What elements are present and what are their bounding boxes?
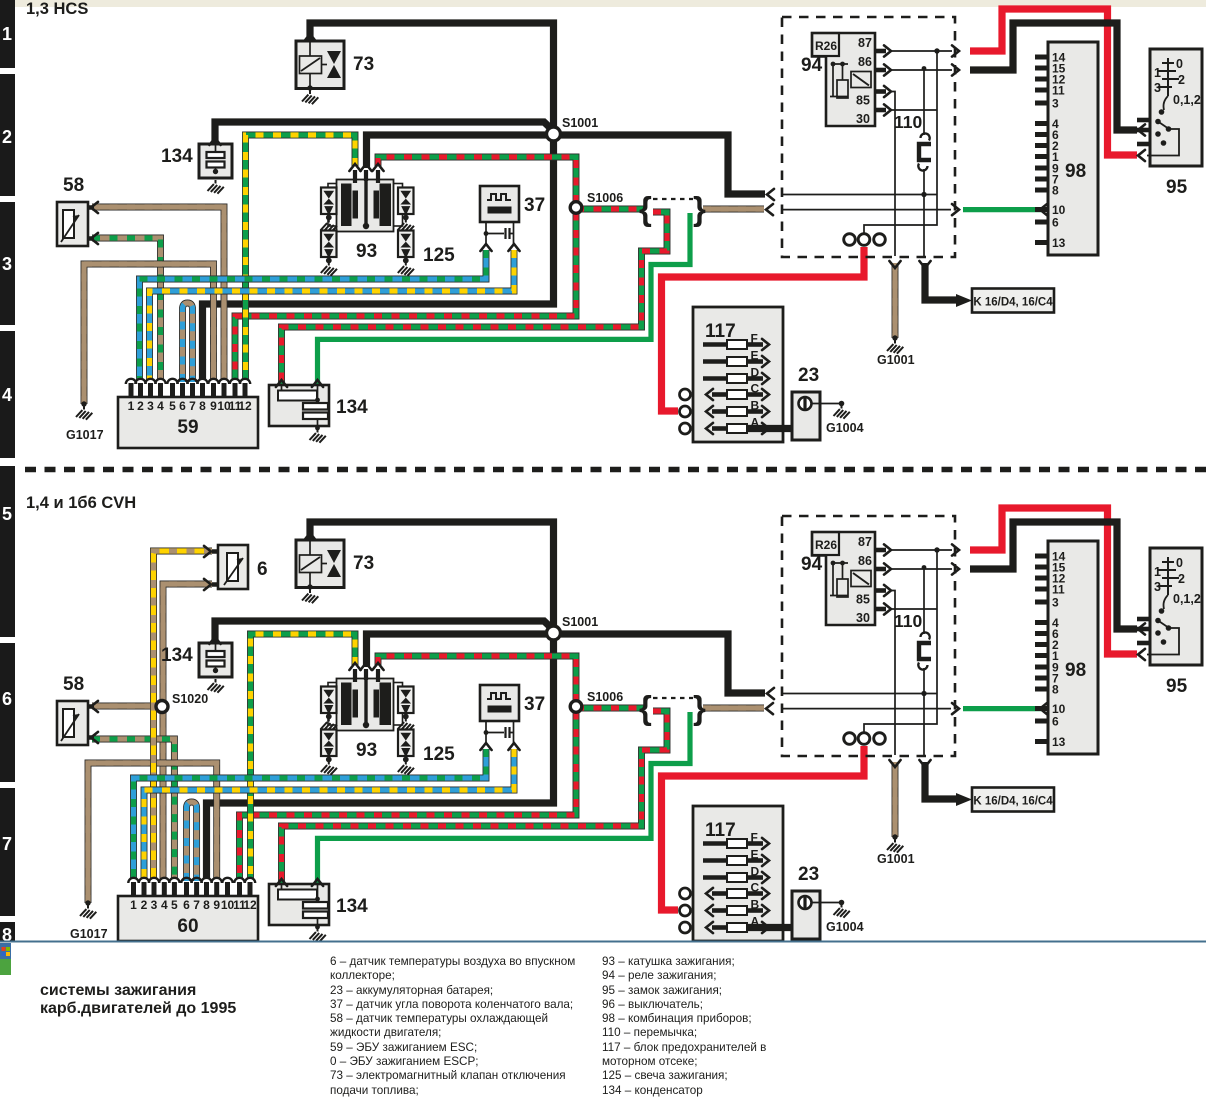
svg-text:C: C bbox=[751, 881, 760, 895]
ground G1001 bbox=[892, 834, 897, 839]
svg-text:1: 1 bbox=[130, 898, 137, 912]
svg-text:K 16/D4, 16/C4: K 16/D4, 16/C4 bbox=[973, 297, 1053, 309]
jumper 110 symbol bbox=[921, 133, 930, 140]
connector pass-through braces bbox=[639, 689, 706, 726]
arrow down out of dashed box (black) bbox=[919, 261, 930, 268]
svg-text:13: 13 bbox=[1052, 735, 1066, 749]
wire green: to instrument cluster pin10 bbox=[963, 706, 1041, 711]
svg-text:125: 125 bbox=[423, 744, 455, 765]
spark plug 125 upper-left bbox=[321, 188, 337, 215]
ground under capacitor 134b bbox=[315, 925, 320, 930]
ground G1004 bbox=[839, 900, 845, 906]
svg-text:G1001: G1001 bbox=[877, 852, 915, 866]
svg-text:1: 1 bbox=[128, 399, 135, 413]
svg-text:K 16/D4, 16/C4: K 16/D4, 16/C4 bbox=[973, 796, 1053, 808]
wire thin black inside relay dashed box bbox=[782, 194, 937, 196]
svg-text:7: 7 bbox=[193, 898, 200, 912]
wire thin: relay 85 to box bottom bbox=[891, 591, 895, 756]
jumper 110 symbol bbox=[921, 632, 930, 639]
svg-text:G1004: G1004 bbox=[826, 920, 864, 934]
wire black: relay 86 to ignition switch 95 bbox=[970, 23, 1137, 130]
svg-text:95: 95 bbox=[1166, 177, 1188, 198]
wire black: valve 73 feed / S1001 vertical / to ECU pin8 bbox=[203, 23, 554, 380]
relay compartment dashed box bbox=[782, 17, 955, 257]
svg-text:85: 85 bbox=[856, 593, 870, 607]
svg-text:110: 110 bbox=[894, 611, 922, 631]
legend column 2 bbox=[602, 955, 766, 1098]
svg-text:{: { bbox=[639, 190, 652, 227]
svg-text:7: 7 bbox=[2, 834, 12, 854]
arrow into relay box (black) bbox=[767, 688, 774, 699]
wire thin black inside box (brown row) bbox=[782, 209, 951, 211]
svg-text:S1006: S1006 bbox=[587, 191, 623, 205]
wire thin: relay 86 row bbox=[891, 69, 952, 71]
svg-text:D: D bbox=[751, 865, 760, 879]
coolant temperature sensor 58 bbox=[57, 202, 88, 246]
svg-text:93: 93 bbox=[356, 740, 377, 761]
fuse row A bbox=[712, 925, 727, 930]
svg-text:R26: R26 bbox=[815, 39, 837, 53]
wire black: coil rail through S1001 to relay box bbox=[367, 634, 766, 693]
svg-text:37: 37 bbox=[524, 195, 545, 216]
wire thin: battery feed vertical to rings bbox=[864, 550, 937, 732]
battery 23 bbox=[792, 392, 820, 440]
svg-text:}: } bbox=[693, 689, 706, 726]
svg-text:30: 30 bbox=[856, 112, 870, 126]
wire red: relay 87 to ignition switch 95 bbox=[970, 508, 1137, 654]
instrument cluster 98 bbox=[1048, 541, 1098, 754]
wire brown: sensor 58 top pin to ECU pin10 bbox=[92, 207, 224, 380]
svg-text:4: 4 bbox=[2, 385, 12, 405]
wire brown: ground G1017 to ECU pin9 bbox=[88, 763, 217, 903]
instrument cluster 98 bbox=[1048, 42, 1098, 255]
spark plug 125 upper-right bbox=[398, 687, 414, 714]
svg-text:37: 37 bbox=[524, 694, 545, 715]
ignition coil 93 bbox=[328, 683, 338, 726]
node S1006 bbox=[570, 701, 582, 713]
svg-text:E: E bbox=[751, 848, 759, 862]
wire fuse A to battery bbox=[747, 425, 806, 432]
wire thin black inside box (brown row) bbox=[782, 708, 951, 710]
arrow out of relay box to green wire bbox=[952, 703, 959, 714]
wire brown: brace to relay box bbox=[703, 705, 764, 712]
svg-text:86: 86 bbox=[858, 55, 872, 69]
wire thin: relay 86 row bbox=[891, 568, 952, 570]
svg-text:9: 9 bbox=[213, 898, 220, 912]
arrow down out of dashed box (brown) bbox=[889, 261, 900, 268]
legend title bbox=[40, 982, 236, 1018]
legend column 1 bbox=[330, 955, 575, 1098]
arrow into relay box (black) bbox=[767, 189, 774, 200]
wire red: connector rings to fuse box 117 bbox=[662, 746, 865, 910]
dotted section separator bbox=[25, 467, 1206, 473]
svg-text:6: 6 bbox=[2, 689, 12, 709]
svg-text:6: 6 bbox=[1052, 715, 1059, 729]
wire green: to instrument cluster pin10 bbox=[963, 207, 1041, 212]
svg-text:125: 125 bbox=[423, 245, 455, 266]
svg-text:5: 5 bbox=[169, 399, 176, 413]
capacitor 134a bbox=[199, 643, 232, 677]
ground under capacitor 134b bbox=[315, 426, 320, 431]
svg-text:6: 6 bbox=[1052, 216, 1059, 230]
svg-text:F: F bbox=[751, 332, 758, 346]
svg-text:87: 87 bbox=[858, 535, 872, 549]
node S1001 bbox=[547, 626, 561, 640]
svg-text:2: 2 bbox=[1178, 572, 1185, 586]
arrow at cluster pin10 bbox=[1040, 703, 1047, 714]
K16 arrow head bbox=[956, 294, 972, 307]
svg-text:85: 85 bbox=[856, 94, 870, 108]
wire black: valve 73 feed / S1001 vertical / to ECU pin8 bbox=[207, 522, 554, 879]
fuse row D bbox=[703, 875, 727, 880]
svg-text:6: 6 bbox=[179, 399, 186, 413]
svg-text:1,3 HCS: 1,3 HCS bbox=[26, 0, 88, 18]
wire green solid: brace drop to capacitor 134b right pin bbox=[318, 213, 691, 388]
ECU connector comb bbox=[131, 882, 253, 896]
solenoid valve 73 bbox=[296, 540, 344, 588]
svg-text:0: 0 bbox=[1176, 556, 1183, 570]
svg-text:C: C bbox=[751, 382, 760, 396]
svg-text:4: 4 bbox=[161, 898, 168, 912]
connector box K 16/D4, 16/C4 bbox=[972, 788, 1054, 812]
fuse row F bbox=[703, 841, 727, 846]
wire thin battery to G1004 bbox=[812, 902, 842, 904]
wire brown: ground G1017 to ECU pin9 bbox=[84, 264, 214, 404]
svg-text:12: 12 bbox=[238, 399, 252, 413]
svg-text:6: 6 bbox=[183, 898, 190, 912]
connector pass-through braces bbox=[639, 190, 706, 227]
svg-text:R26: R26 bbox=[815, 538, 837, 552]
svg-text:134: 134 bbox=[161, 146, 193, 167]
svg-text:1: 1 bbox=[1154, 66, 1161, 80]
svg-text:23: 23 bbox=[798, 365, 819, 386]
arrow into 95 (black) bbox=[1138, 623, 1145, 634]
svg-text:117: 117 bbox=[705, 820, 736, 841]
wire thin battery to G1004 bbox=[812, 403, 842, 405]
ground G1004 bbox=[839, 401, 845, 407]
wire black to K16 connector bbox=[925, 762, 956, 799]
svg-text:73: 73 bbox=[353, 54, 374, 75]
spark plug 125 lower-right bbox=[398, 231, 414, 258]
svg-text:30: 30 bbox=[856, 611, 870, 625]
ECU box 59 bbox=[118, 397, 258, 448]
fuse row E bbox=[703, 359, 727, 364]
arrow down out of dashed box (brown) bbox=[889, 760, 900, 767]
capacitor 134b near ECU bbox=[269, 385, 329, 426]
spark plug 125 upper-right bbox=[398, 188, 414, 215]
windows logo icon bbox=[0, 943, 11, 975]
svg-text:3: 3 bbox=[1052, 97, 1059, 111]
svg-text:8: 8 bbox=[1052, 184, 1059, 198]
connector box K 16/D4, 16/C4 bbox=[972, 289, 1054, 313]
ignition switch 95 bbox=[1150, 548, 1202, 665]
wire green/red: brace drop to capacitor 134b bbox=[282, 212, 668, 388]
wire blue/yellow: sensor 37 right to ECU bbox=[150, 250, 515, 380]
wire thin: relay 87 row bbox=[891, 50, 952, 52]
svg-text:G1017: G1017 bbox=[66, 428, 104, 442]
ignition relay 94 bbox=[812, 33, 875, 126]
wire black: capacitor 134a to S1001 bbox=[215, 621, 554, 645]
arrow into relay box (brown row) bbox=[766, 204, 773, 215]
svg-text:F: F bbox=[751, 831, 758, 845]
svg-text:G1001: G1001 bbox=[877, 353, 915, 367]
svg-text:2: 2 bbox=[2, 127, 12, 147]
battery 23 bbox=[792, 891, 820, 939]
fuse row B bbox=[712, 409, 727, 414]
crankshaft sensor 37 bbox=[480, 186, 519, 222]
svg-text:0,1,2: 0,1,2 bbox=[1173, 592, 1201, 606]
arrow into 95 (red) bbox=[1138, 649, 1145, 660]
fuse row D bbox=[703, 376, 727, 381]
arrow out of relay box to green wire bbox=[952, 204, 959, 215]
wire brown/blue loop between ECU pins 6 and 7 bbox=[187, 802, 197, 881]
svg-text:59: 59 bbox=[177, 417, 198, 438]
fuse box 117 bbox=[693, 806, 783, 941]
wire thin: relay 30 row bbox=[891, 608, 937, 610]
svg-text:134: 134 bbox=[336, 896, 368, 917]
svg-text:G1004: G1004 bbox=[826, 421, 864, 435]
wire red: connector rings to fuse box 117 bbox=[662, 247, 865, 411]
svg-text:6: 6 bbox=[257, 559, 268, 580]
arrow down out of dashed box (black) bbox=[919, 760, 930, 767]
svg-text:8: 8 bbox=[203, 898, 210, 912]
wire green/red: coil pin3 via S1006 to ECU pin11 bbox=[235, 157, 576, 380]
node S1006 bbox=[570, 202, 582, 214]
svg-text:60: 60 bbox=[177, 916, 198, 937]
svg-text:3: 3 bbox=[1154, 81, 1161, 95]
wire green/yellow: coil pin1 to ECU pin12 bbox=[246, 135, 356, 380]
wire black: capacitor 134a to S1001 bbox=[215, 122, 554, 146]
fuse row E bbox=[703, 858, 727, 863]
svg-text:8: 8 bbox=[199, 399, 206, 413]
svg-text:}: } bbox=[693, 190, 706, 227]
svg-text:E: E bbox=[751, 349, 759, 363]
svg-text:D: D bbox=[751, 366, 760, 380]
wire thin black inside relay dashed box bbox=[782, 693, 937, 695]
solenoid valve 73 bbox=[296, 41, 344, 89]
relay compartment dashed box bbox=[782, 516, 955, 756]
wire red: relay 87 to ignition switch 95 bbox=[970, 9, 1137, 155]
spark plug 125 lower-left bbox=[321, 231, 337, 258]
arrow into relay box (brown row) bbox=[766, 703, 773, 714]
svg-text:87: 87 bbox=[858, 36, 872, 50]
svg-text:7: 7 bbox=[189, 399, 196, 413]
svg-text:11: 11 bbox=[1052, 583, 1065, 597]
svg-text:S1001: S1001 bbox=[562, 615, 598, 629]
wire brown: relay 85 to ground G1001 bbox=[892, 762, 899, 837]
wire thin: battery feed vertical to rings bbox=[864, 51, 937, 233]
svg-text:134: 134 bbox=[161, 645, 193, 666]
svg-text:4: 4 bbox=[157, 399, 164, 413]
wire thin: relay 85 to box bottom bbox=[891, 92, 895, 257]
wire brown: sensor 58 top pin to node S1020 bbox=[92, 703, 162, 710]
wire thin: jumper 110 vertical bbox=[923, 569, 925, 755]
capacitor 134a bbox=[199, 144, 232, 178]
svg-text:117: 117 bbox=[705, 321, 736, 342]
ignition switch 95 bbox=[1150, 49, 1202, 166]
wire green/red: S1006 branch to connector brace bbox=[576, 206, 644, 213]
svg-text:3: 3 bbox=[1052, 596, 1059, 610]
svg-text:5: 5 bbox=[2, 504, 12, 524]
svg-text:1: 1 bbox=[1154, 565, 1161, 579]
ground G1017 bbox=[81, 401, 86, 406]
coolant temperature sensor 58 bbox=[57, 701, 88, 745]
intake air temperature sensor 6 bbox=[218, 545, 248, 589]
svg-text:8: 8 bbox=[1052, 683, 1059, 697]
wire black: relay 86 to ignition switch 95 bbox=[970, 522, 1137, 629]
ground G1017 bbox=[85, 900, 90, 905]
svg-text:98: 98 bbox=[1065, 660, 1086, 681]
svg-text:3: 3 bbox=[1154, 580, 1161, 594]
svg-text:2: 2 bbox=[1178, 73, 1185, 87]
svg-text:58: 58 bbox=[63, 175, 84, 196]
ground under valve 73 bbox=[302, 590, 318, 604]
wire brown/blue loop between ECU pins 6 and 7 bbox=[183, 303, 193, 382]
svg-text:S1006: S1006 bbox=[587, 690, 623, 704]
fuse row B bbox=[712, 908, 727, 913]
spark plug 125 lower-right bbox=[398, 730, 414, 757]
ECU box 60 bbox=[118, 896, 258, 941]
ECU connector comb bbox=[129, 383, 248, 397]
wire brown: sensor 6 bottom pin to S1020 to ECU pin4 bbox=[163, 584, 212, 879]
wire brown/green: sensor 58 bottom pin to ECU pin5 bbox=[92, 739, 174, 879]
svg-text:3: 3 bbox=[2, 254, 12, 274]
svg-text:11: 11 bbox=[1052, 84, 1065, 98]
svg-text:94: 94 bbox=[801, 554, 823, 575]
svg-text:3: 3 bbox=[147, 399, 154, 413]
wire blue/green: sensor 37 left to ECU bbox=[134, 749, 487, 879]
wire green solid: brace drop to capacitor 134b right pin bbox=[318, 712, 691, 887]
wire green/red: brace drop to capacitor 134b bbox=[282, 711, 668, 887]
spark plug 125 lower-left bbox=[321, 730, 337, 757]
svg-text:98: 98 bbox=[1065, 161, 1086, 182]
wire black to K16 connector bbox=[925, 263, 956, 300]
wire green/yellow: coil pin1 to ECU pin12 bbox=[251, 634, 356, 879]
svg-text:2: 2 bbox=[137, 399, 144, 413]
fuse row A bbox=[712, 426, 727, 431]
ignition coil 93 bbox=[328, 184, 338, 227]
fuse row C bbox=[712, 891, 727, 896]
svg-text:94: 94 bbox=[801, 55, 823, 76]
wire green/red: coil pin3 via S1006 to ECU pin11 bbox=[240, 656, 577, 879]
svg-text:2: 2 bbox=[141, 898, 148, 912]
fuse box 117 bbox=[693, 307, 783, 442]
svg-text:13: 13 bbox=[1052, 236, 1066, 250]
fuse row F bbox=[703, 342, 727, 347]
svg-text:23: 23 bbox=[798, 864, 819, 885]
svg-text:0: 0 bbox=[1176, 57, 1183, 71]
fuse row C bbox=[712, 392, 727, 397]
svg-text:0,1,2: 0,1,2 bbox=[1173, 93, 1201, 107]
left sidebar bbox=[0, 0, 15, 945]
svg-text:1,4 и 1б6 CVH: 1,4 и 1б6 CVH bbox=[26, 494, 136, 512]
wire brown: brace to relay box bbox=[703, 206, 764, 213]
wire black: coil rail through S1001 to relay box bbox=[367, 135, 766, 194]
connector rings (96) bbox=[844, 234, 856, 246]
svg-text:1: 1 bbox=[2, 24, 12, 44]
svg-text:S1001: S1001 bbox=[562, 116, 598, 130]
wire thin: relay 87 row bbox=[891, 549, 952, 551]
wire blue/green: sensor 37 left to ECU bbox=[140, 250, 487, 380]
svg-text:3: 3 bbox=[151, 898, 158, 912]
K16 arrow head bbox=[956, 793, 972, 806]
wire thin: relay 30 row bbox=[891, 109, 937, 111]
wire brown/green: sensor 58 bottom pin to ECU pin4 bbox=[92, 238, 161, 380]
wire thin: jumper 110 vertical bbox=[923, 70, 925, 256]
ground under valve 73 bbox=[302, 91, 318, 105]
crankshaft sensor 37 bbox=[480, 685, 519, 721]
blue separator line above legend bbox=[0, 941, 1206, 943]
arrow into 95 (black) bbox=[1138, 124, 1145, 135]
ground under capacitor 134a bbox=[208, 679, 224, 693]
cream top strip bbox=[0, 0, 1206, 7]
arrow into 95 (red) bbox=[1138, 150, 1145, 161]
svg-text:5: 5 bbox=[171, 898, 178, 912]
svg-text:S1020: S1020 bbox=[172, 692, 208, 706]
svg-text:58: 58 bbox=[63, 674, 84, 695]
svg-text:B: B bbox=[751, 399, 760, 413]
svg-text:{: { bbox=[639, 689, 652, 726]
node S1020 bbox=[156, 701, 168, 713]
svg-text:12: 12 bbox=[243, 898, 257, 912]
arrow at cluster pin10 bbox=[1040, 204, 1047, 215]
svg-text:110: 110 bbox=[894, 112, 922, 132]
wire brown: relay 85 to ground G1001 bbox=[892, 263, 899, 338]
svg-text:93: 93 bbox=[356, 241, 377, 262]
svg-text:G1017: G1017 bbox=[70, 927, 108, 941]
wire blue/yellow: sensor 37 right to ECU bbox=[144, 749, 514, 879]
svg-text:134: 134 bbox=[336, 397, 368, 418]
wire fuse A to battery bbox=[747, 924, 806, 931]
svg-text:73: 73 bbox=[353, 553, 374, 574]
spark plug 125 upper-left bbox=[321, 687, 337, 714]
node S1001 bbox=[547, 127, 561, 141]
capacitor 134b near ECU bbox=[269, 884, 329, 925]
svg-text:B: B bbox=[751, 898, 760, 912]
ignition relay 94 bbox=[812, 532, 875, 625]
ground G1001 bbox=[892, 335, 897, 340]
connector rings (96) bbox=[844, 733, 856, 745]
wire green/red: S1006 branch to connector brace bbox=[576, 705, 644, 712]
svg-text:95: 95 bbox=[1166, 676, 1188, 697]
svg-text:86: 86 bbox=[858, 554, 872, 568]
ground under capacitor 134a bbox=[208, 180, 224, 194]
svg-text:9: 9 bbox=[210, 399, 217, 413]
wire yellow/brown: sensor 6 top pin to ECU pin3 bbox=[154, 551, 213, 879]
